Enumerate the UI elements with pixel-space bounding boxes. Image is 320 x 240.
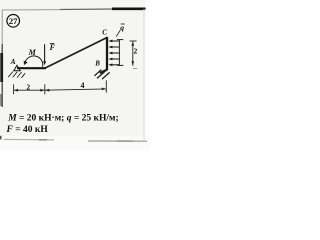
vertical member C to B xyxy=(106,37,108,71)
support A hatching xyxy=(8,72,25,78)
dimension line 4 xyxy=(45,89,107,90)
svg-text:F: F xyxy=(49,43,56,52)
support B link xyxy=(100,70,107,73)
load arrows pointing left at member xyxy=(110,41,119,65)
svg-text:4: 4 xyxy=(81,81,85,90)
left frame border lower segment xyxy=(1,44,3,107)
left frame border dark blob xyxy=(0,53,3,82)
right white strip xyxy=(145,0,150,150)
top frame border middle part xyxy=(60,8,116,11)
left frame border xyxy=(1,10,3,45)
svg-text:B: B xyxy=(94,59,100,67)
svg-text:F = 40 кН: F = 40 кН xyxy=(6,125,49,135)
top frame border xyxy=(2,9,62,11)
svg-text:27: 27 xyxy=(9,16,18,26)
page background xyxy=(0,0,150,150)
svg-text:M = 20 кН·м; q = 25 кН/м;: M = 20 кН·м; q = 25 кН/м; xyxy=(7,113,118,123)
bottom faint rule right darker segment xyxy=(117,140,133,142)
moment M arrowhead xyxy=(24,61,28,65)
dimension line 2 xyxy=(14,89,45,91)
vertical dimension bottom small tick xyxy=(133,67,137,69)
svg-text:2: 2 xyxy=(26,82,30,91)
beam incline to C xyxy=(45,38,107,68)
dimension extension tick below F xyxy=(44,84,46,94)
left frame border lower blob xyxy=(0,94,2,106)
svg-text:C: C xyxy=(102,28,107,36)
pin support triangle at A xyxy=(14,65,20,71)
vertical dimension line 2 xyxy=(132,41,134,66)
bottom faint rule left darker segment xyxy=(39,139,47,141)
top frame border thick right part xyxy=(112,8,146,11)
bottom faint rule right part xyxy=(88,140,147,142)
bottom-left edge mark xyxy=(0,136,2,140)
svg-text:A: A xyxy=(10,57,16,66)
right faint page edge xyxy=(143,9,145,140)
force F arrow (downward) xyxy=(44,44,46,62)
svg-text:2: 2 xyxy=(134,47,138,56)
load top cap xyxy=(117,39,123,41)
vertical dimension top tick xyxy=(130,40,137,42)
support B hatching xyxy=(94,70,109,80)
beam A to kink to C xyxy=(17,67,46,69)
load bottom cap xyxy=(117,64,123,66)
problem number circle 27 xyxy=(7,14,20,27)
bottom faint rule left part xyxy=(4,138,54,141)
distributed load q line xyxy=(118,40,120,66)
bottom white strip xyxy=(0,136,150,150)
q leader line xyxy=(116,30,120,37)
dimension extension tick at A xyxy=(13,84,15,94)
moment M arc xyxy=(25,56,43,67)
dimension extension tick below B xyxy=(105,80,107,92)
